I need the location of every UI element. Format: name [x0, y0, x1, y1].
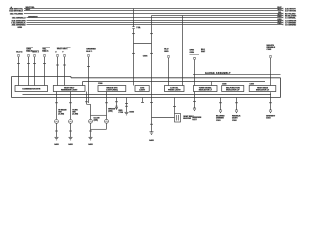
svg-text:G401: G401 [54, 143, 59, 146]
svg-text:10A GRN/BLU: 10A GRN/BLU [12, 17, 26, 20]
svg-text:G401: G401 [88, 143, 93, 146]
svg-text:LIGHT (RED): LIGHT (RED) [106, 90, 118, 92]
svg-text:C506: C506 [98, 83, 102, 85]
svg-text:C506: C506 [143, 56, 148, 58]
svg-text:G401: G401 [149, 139, 154, 142]
svg-text:7.5A: 7.5A [136, 26, 141, 29]
svg-text:PRESS LIGHT: PRESS LIGHT [168, 90, 181, 92]
svg-text:REMINDER LIGHT: REMINDER LIGHT [61, 90, 78, 92]
svg-text:COMBINATION MTR: COMBINATION MTR [22, 87, 41, 90]
svg-text:GRN: GRN [18, 27, 23, 29]
svg-text:C9 GRN/RD: C9 GRN/RD [285, 25, 297, 27]
svg-text:(3W): (3W) [108, 111, 112, 113]
svg-text:G502: G502 [129, 112, 134, 114]
svg-text:C508: C508 [222, 84, 226, 86]
svg-text:WHT: WHT [26, 9, 31, 11]
svg-text:BLK 1: BLK 1 [86, 51, 93, 53]
svg-text:GRN/WHT: GRN/WHT [28, 16, 38, 18]
svg-text:15A WHT/BLK: 15A WHT/BLK [9, 10, 23, 13]
svg-text:WHT 3: WHT 3 [32, 51, 39, 53]
svg-text:C417: C417 [192, 118, 197, 121]
svg-text:C720: C720 [119, 112, 124, 114]
svg-text:A17 WHT/B: A17 WHT/B [285, 10, 296, 13]
svg-text:G401: G401 [68, 143, 73, 146]
svg-text:C502: C502 [232, 120, 237, 122]
svg-text:GRN: GRN [277, 16, 282, 18]
svg-text:BUZZER: BUZZER [183, 118, 191, 120]
svg-text:BLU 4: BLU 4 [16, 50, 23, 53]
svg-text:(1.4W): (1.4W) [72, 113, 78, 116]
svg-text:(1.4W): (1.4W) [58, 113, 64, 116]
svg-text:10A YEL/RED: 10A YEL/RED [10, 13, 24, 16]
svg-text:C509: C509 [250, 84, 254, 86]
svg-text:ORN: ORN [190, 52, 195, 54]
svg-text:C501: C501 [216, 120, 221, 122]
svg-text:LIGHT: LIGHT [139, 90, 146, 92]
svg-text:INDICATOR LP: INDICATOR LP [226, 89, 240, 92]
svg-text:(3W): (3W) [94, 120, 98, 122]
svg-text:C1 GRN/BL: C1 GRN/BL [285, 18, 297, 20]
svg-text:INDICATOR LT: INDICATOR LT [199, 89, 213, 92]
svg-text:RED: RED [278, 23, 283, 25]
svg-text:RED 5: RED 5 [42, 51, 49, 53]
svg-text:BLU: BLU [278, 9, 283, 11]
svg-text:RED: RED [164, 51, 169, 53]
svg-text:INDICATOR LT: INDICATOR LT [256, 89, 270, 92]
svg-text:C503: C503 [266, 118, 271, 120]
